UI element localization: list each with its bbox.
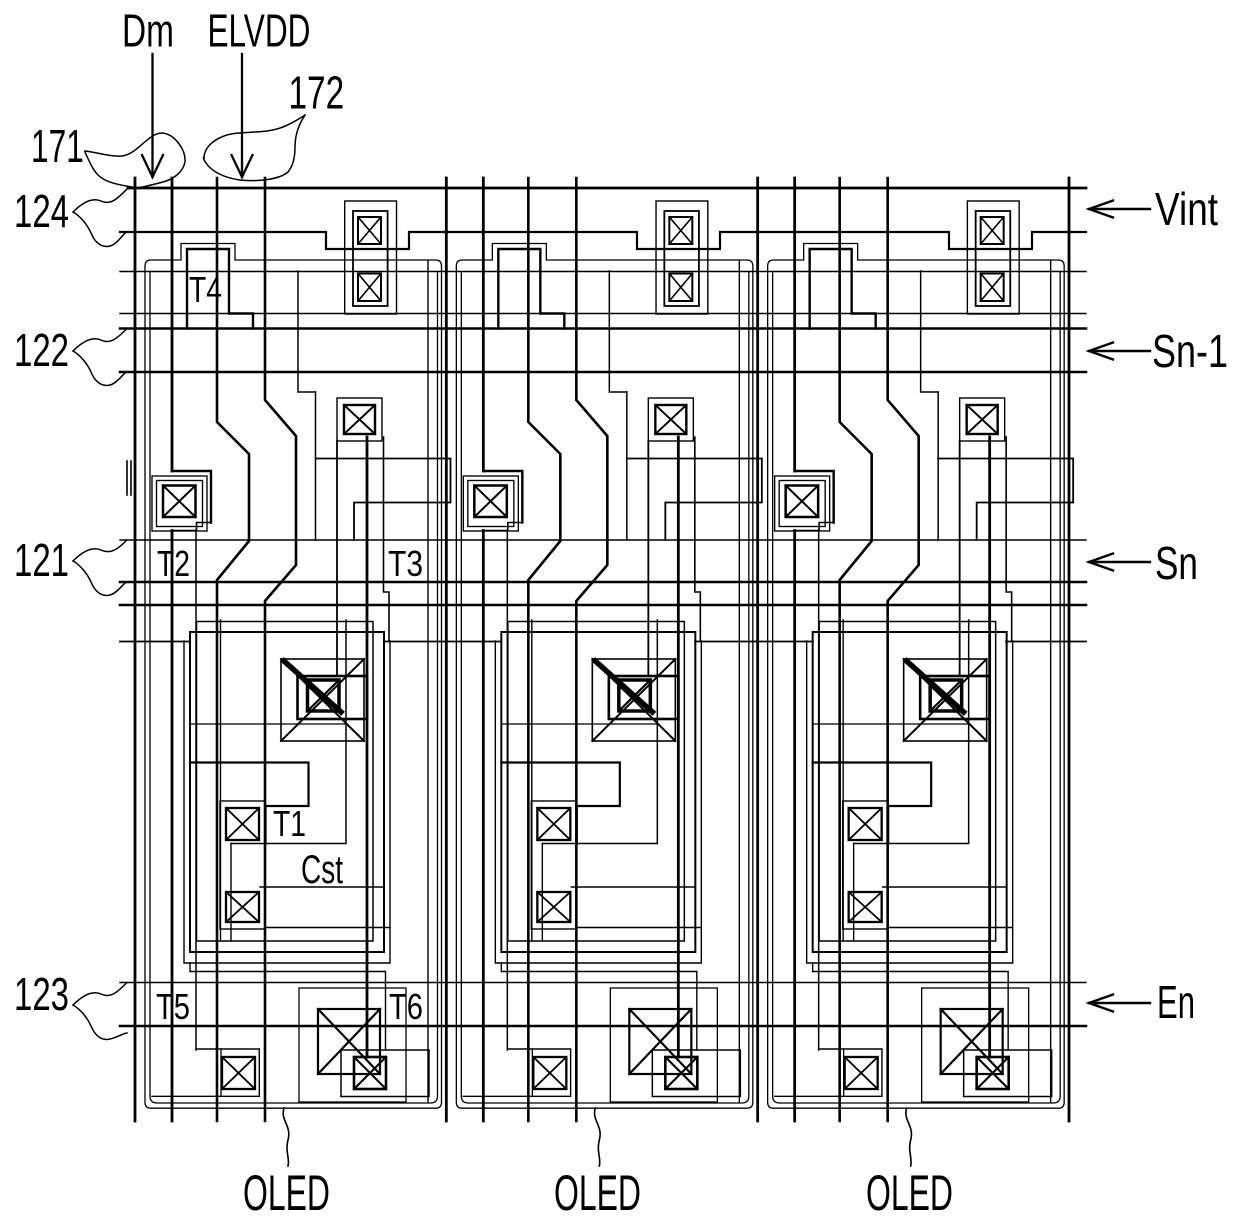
svg-text:172: 172 <box>289 67 345 119</box>
svg-text:123: 123 <box>14 970 69 1021</box>
svg-text:T5: T5 <box>156 986 190 1027</box>
svg-text:T2: T2 <box>157 544 190 584</box>
svg-text:Dm: Dm <box>122 5 174 56</box>
svg-text:En: En <box>1157 977 1195 1029</box>
svg-text:OLED: OLED <box>554 1165 641 1221</box>
svg-text:171: 171 <box>31 121 84 172</box>
svg-text:OLED: OLED <box>243 1165 330 1221</box>
svg-text:122: 122 <box>14 326 69 377</box>
svg-text:ELVDD: ELVDD <box>208 6 311 57</box>
svg-text:121: 121 <box>14 536 69 587</box>
svg-text:T6: T6 <box>389 986 423 1027</box>
svg-text:T4: T4 <box>189 270 222 310</box>
svg-text:Sn: Sn <box>1155 537 1198 589</box>
svg-text:Cst: Cst <box>301 848 343 892</box>
svg-text:Vint: Vint <box>1155 183 1218 235</box>
svg-text:T1: T1 <box>273 804 306 844</box>
svg-text:T3: T3 <box>388 544 423 584</box>
svg-text:OLED: OLED <box>866 1165 953 1221</box>
svg-text:Sn-1: Sn-1 <box>1152 326 1228 377</box>
svg-text:124: 124 <box>14 187 69 238</box>
